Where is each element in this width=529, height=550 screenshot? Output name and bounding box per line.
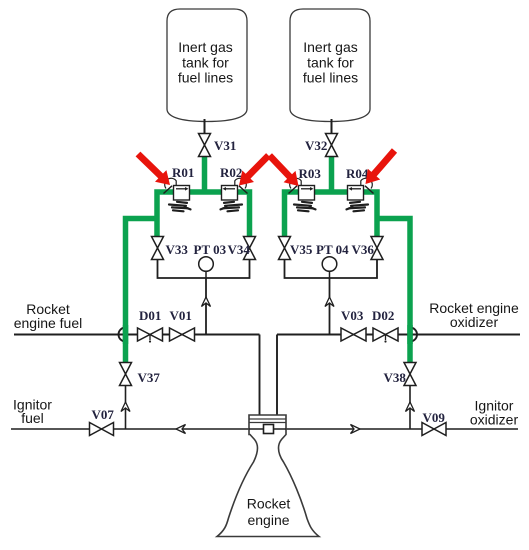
wire tank T1 to V31 (204, 119, 206, 134)
svg-text:V01: V01 (170, 308, 192, 323)
svg-text:oxidizer: oxidizer (470, 412, 519, 428)
svg-text:V36: V36 (352, 242, 375, 257)
valve V33 (152, 237, 164, 260)
svg-text:R02: R02 (220, 165, 242, 180)
valve D01 (138, 328, 163, 341)
engine flange band lines (249, 418, 286, 420)
svg-text:PT 04: PT 04 (316, 242, 349, 257)
svg-text:D01: D01 (139, 308, 161, 323)
svg-text:engine: engine (247, 512, 289, 528)
svg-text:Rocket: Rocket (247, 496, 291, 512)
green overpaint at crossings (123, 325, 129, 344)
wire manifold right (V35/V36 header) (285, 260, 378, 279)
igniter port square (264, 425, 274, 434)
regulator R02 (221, 178, 248, 211)
wire manifold right down to oxidizer line (329, 278, 331, 335)
svg-text:V31: V31 (214, 138, 236, 153)
svg-text:R04: R04 (346, 166, 369, 181)
valve V38 (404, 363, 416, 386)
svg-text:R01: R01 (172, 165, 194, 180)
wire ignitor fuel line (11, 428, 249, 430)
svg-text:V35: V35 (290, 242, 313, 257)
svg-text:tank for: tank for (182, 54, 229, 70)
check arrow up on left manifold downline (202, 297, 211, 307)
valve V03 (341, 328, 366, 341)
valve V01 (170, 328, 195, 341)
green wire R03 left to V35 (285, 192, 301, 237)
green wire R01 left to V33 (157, 192, 175, 237)
svg-text:fuel: fuel (21, 410, 44, 426)
check arrow up on right manifold downline (325, 297, 334, 307)
regulator R03 (289, 178, 316, 211)
green wire V32 tee to R03/R04 (314, 155, 349, 194)
regulator R01 (164, 178, 191, 211)
rocket engine body (217, 415, 319, 537)
svg-text:oxidizer: oxidizer (450, 314, 499, 330)
valve V31 (199, 134, 211, 157)
wire V37 down to ignitor fuel line (125, 386, 127, 430)
svg-text:fuel lines: fuel lines (178, 70, 233, 86)
svg-text:V37: V37 (138, 370, 161, 385)
svg-text:V03: V03 (341, 308, 364, 323)
green wire V31 tee to R01/R02 (187, 155, 222, 194)
crossing hop left (fuel line over green) (119, 328, 126, 342)
wire rocket engine fuel line (14, 334, 260, 336)
svg-text:tank for: tank for (307, 54, 354, 70)
svg-text:V07: V07 (92, 407, 115, 422)
check arrow right on ignitor oxidizer line (351, 425, 361, 434)
check arrow up below V37 (121, 402, 130, 412)
crossing hop right (oxidizer line over green) (410, 328, 417, 342)
red arrow at R01 (136, 152, 170, 185)
svg-text:V33: V33 (166, 242, 189, 257)
valve V09 (422, 423, 446, 436)
valve V32 (326, 134, 338, 157)
svg-text:V32: V32 (305, 138, 327, 153)
svg-text:V09: V09 (423, 410, 446, 425)
tank T1 (inert gas tank, left) (167, 9, 247, 122)
wire tank T2 to V32 (331, 119, 333, 134)
valve D02 (373, 328, 398, 341)
green wire branch to outer-right line down to V38 (375, 219, 410, 363)
pressure transducer PT04 (322, 257, 337, 272)
green wire branch to outer-left line down to V37 (126, 219, 160, 363)
red arrow at R03 (267, 153, 299, 186)
green wire R02 right to V34 (236, 192, 250, 237)
wire V38 down to ignitor oxidizer line (409, 386, 411, 430)
wire ignitor oxidizer line (286, 428, 518, 430)
valve V36 (371, 237, 383, 260)
tank T2 (inert gas tank, right) (290, 9, 370, 122)
wire rocket engine oxidizer line (277, 334, 520, 336)
svg-text:R03: R03 (299, 166, 322, 181)
regulator R04 (347, 178, 374, 211)
svg-text:PT 03: PT 03 (194, 242, 227, 257)
svg-text:V34: V34 (228, 242, 251, 257)
wire manifold left down to fuel line (205, 278, 207, 335)
valve V35 (279, 237, 291, 260)
valve V34 (244, 237, 256, 260)
valve V37 (120, 363, 132, 386)
red arrow at R04 (366, 148, 398, 184)
check arrow left on ignitor fuel line (176, 425, 186, 434)
svg-text:Inert gas: Inert gas (178, 39, 232, 55)
svg-text:D02: D02 (372, 308, 394, 323)
svg-text:Inert gas: Inert gas (303, 39, 357, 55)
wire oxidizer feed down to engine (276, 335, 278, 417)
wire igniter line inside flange (249, 428, 286, 430)
pressure transducer PT03 (199, 257, 214, 272)
wire fuel feed down to engine (259, 335, 261, 417)
green wire R04 right to V36 (362, 192, 377, 237)
svg-text:engine fuel: engine fuel (14, 315, 83, 331)
svg-text:V38: V38 (384, 370, 407, 385)
red arrow at R02 (239, 153, 271, 185)
wire manifold left (V33/V34 header) (158, 260, 250, 279)
check arrow up below V38 (406, 402, 415, 412)
valve V07 (90, 423, 114, 436)
svg-text:fuel lines: fuel lines (303, 70, 358, 86)
